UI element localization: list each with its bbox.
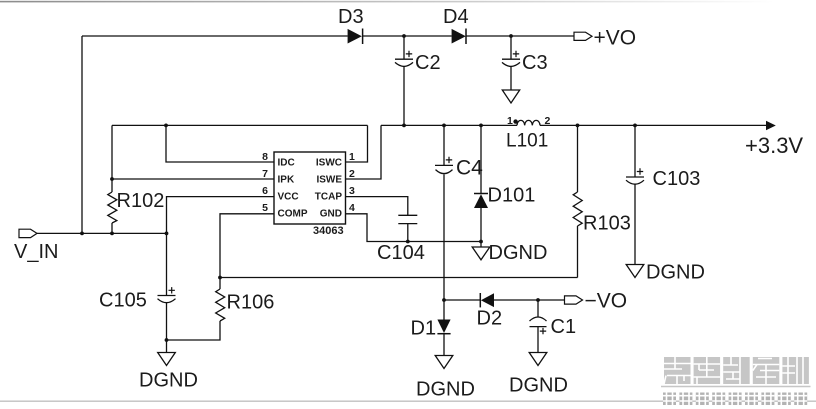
svg-text:+VO: +VO bbox=[594, 27, 637, 50]
capacitor C3 bbox=[502, 51, 520, 67]
connector tag -VO bbox=[565, 296, 583, 304]
page bottom border line bbox=[0, 400, 816, 402]
wire C105 bottom to DGND bbox=[166, 303, 168, 353]
connector tag +VO bbox=[574, 32, 592, 40]
svg-text:C3: C3 bbox=[522, 52, 548, 74]
node COMP feedback junction bbox=[218, 276, 222, 280]
wire R103 top lead from +3.3V rail bbox=[577, 125, 579, 192]
wire VCC node down to C105 bbox=[166, 233, 168, 295]
node IDC drop junction bbox=[164, 124, 168, 128]
node C2 top junction bbox=[402, 34, 406, 38]
svg-text:3: 3 bbox=[349, 185, 355, 197]
wire top rail from V_IN branch to D3 anode bbox=[82, 35, 348, 37]
svg-text:L101: L101 bbox=[506, 131, 548, 152]
svg-text:C4: C4 bbox=[456, 157, 483, 180]
wire pin 7 IPK bbox=[112, 178, 274, 180]
svg-text:DGND: DGND bbox=[646, 262, 705, 284]
svg-text:34063: 34063 bbox=[313, 225, 344, 237]
svg-text:VCC: VCC bbox=[278, 192, 299, 203]
svg-text:2: 2 bbox=[349, 168, 355, 180]
resistor R106 bbox=[216, 289, 225, 321]
wire pin 1 ISWC riser bbox=[346, 125, 368, 162]
ground DGND of C103 bbox=[626, 265, 644, 278]
node R103 top junction bbox=[576, 124, 580, 128]
ground DGND of D101 bbox=[472, 247, 490, 260]
svg-text:−VO: −VO bbox=[585, 290, 628, 313]
node C3 top junction bbox=[509, 34, 513, 38]
diode D3 bbox=[348, 29, 363, 45]
diode D101 bbox=[474, 194, 488, 209]
wire C103 top lead bbox=[634, 125, 636, 177]
wire node ISWC horizontal run bbox=[112, 124, 368, 126]
wire negative rectifier node to D2 bbox=[444, 299, 480, 301]
svg-text:2: 2 bbox=[545, 115, 551, 127]
node C4 top junction bbox=[442, 124, 446, 128]
connector tag V_IN bbox=[19, 229, 37, 237]
wire R106 bottom lead and run to C105 node bbox=[167, 321, 221, 340]
svg-text:8: 8 bbox=[262, 151, 268, 163]
svg-text:COMP: COMP bbox=[278, 209, 308, 220]
svg-text:C1: C1 bbox=[551, 316, 577, 338]
svg-text:DGND: DGND bbox=[416, 379, 475, 401]
diode D1 bbox=[437, 320, 450, 334]
node C105 R106 junction bbox=[165, 338, 169, 342]
svg-text:D2: D2 bbox=[477, 308, 503, 330]
watermark underline bbox=[661, 386, 811, 388]
wire feedback COMP node to R103 bottom bbox=[220, 277, 578, 279]
svg-text:ISWC: ISWC bbox=[316, 158, 342, 169]
svg-text:C105: C105 bbox=[99, 290, 147, 312]
wire R106 top lead bbox=[219, 278, 221, 290]
svg-text:IPK: IPK bbox=[278, 175, 295, 186]
wire L101 pin2 to +3.3V arrow bbox=[540, 124, 766, 126]
watermark small text bbox=[663, 393, 807, 406]
wire D2 anode to -VO tag bbox=[494, 299, 565, 301]
wire vertical V_IN to top rail bbox=[81, 36, 83, 233]
watermark logo big text bbox=[664, 357, 809, 384]
wire pin 8 IDC drop bbox=[166, 125, 274, 162]
svg-text:4: 4 bbox=[349, 202, 355, 214]
svg-text:D1: D1 bbox=[411, 318, 437, 340]
wire C3 bottom lead to ground bbox=[510, 67, 512, 91]
svg-text:C2: C2 bbox=[415, 52, 441, 74]
node R102 bottom junction bbox=[110, 232, 114, 236]
svg-text:C103: C103 bbox=[653, 168, 701, 190]
wire C4 bottom through to D1 bbox=[443, 174, 445, 319]
capacitor C104 bbox=[398, 215, 417, 223]
svg-text:GND: GND bbox=[320, 209, 342, 220]
wire C1 top lead bbox=[537, 300, 539, 317]
svg-text:D4: D4 bbox=[443, 6, 469, 28]
wire V_IN tag to VCC branch bbox=[37, 232, 167, 234]
node D101 bottom junction bbox=[479, 240, 483, 244]
svg-text:D3: D3 bbox=[338, 6, 364, 28]
svg-text:6: 6 bbox=[262, 185, 268, 197]
wire D101 top lead bbox=[480, 125, 482, 193]
ground under C3 bbox=[502, 90, 519, 103]
capacitor C1 bbox=[530, 317, 547, 334]
wire pin 4 GND run bbox=[346, 214, 481, 242]
resistor R103 bbox=[573, 192, 582, 226]
svg-text:+3.3V: +3.3V bbox=[745, 133, 803, 158]
wire pin 5 COMP bbox=[220, 214, 274, 278]
wire R102 bottom lead bbox=[111, 223, 113, 233]
node D101 top junction bbox=[479, 124, 483, 128]
arrow +3.3V rail end bbox=[766, 121, 776, 130]
wire C2 bottom lead bbox=[403, 67, 405, 126]
node D1 D2 junction bbox=[442, 298, 446, 302]
svg-text:R103: R103 bbox=[583, 213, 631, 235]
svg-text:R102: R102 bbox=[117, 190, 165, 212]
svg-text:C104: C104 bbox=[377, 242, 425, 264]
wire C3 top lead bbox=[510, 36, 512, 59]
node C103 top junction bbox=[633, 124, 637, 128]
wire D3 cathode to D4 anode bbox=[363, 35, 452, 37]
capacitor C4 bbox=[435, 157, 453, 174]
inductor L101 bbox=[507, 115, 551, 127]
svg-text:1: 1 bbox=[349, 151, 355, 163]
wire C103 bottom lead to DGND bbox=[634, 184, 636, 264]
svg-text:DGND: DGND bbox=[489, 242, 548, 264]
page top border line bbox=[0, 1, 816, 3]
wire pin 2 ISWE riser bbox=[346, 125, 382, 179]
wire D4 cathode to +VO tag bbox=[466, 35, 574, 37]
wire D101 anode to GND run bbox=[480, 208, 482, 247]
svg-text:R106: R106 bbox=[227, 292, 275, 314]
svg-text:1: 1 bbox=[507, 115, 513, 127]
ground DGND of C1 bbox=[529, 353, 547, 366]
svg-text:D101: D101 bbox=[488, 185, 536, 207]
svg-text:V_IN: V_IN bbox=[14, 241, 58, 263]
ground DGND of C105 bbox=[158, 353, 176, 366]
wire C104 bottom lead bbox=[407, 224, 409, 242]
wire pin 3 TCAP to C104 bbox=[346, 197, 408, 216]
wire R102 top vertical bbox=[111, 125, 113, 192]
diode D4 bbox=[452, 29, 466, 45]
node VCC branch junction bbox=[165, 232, 169, 236]
node IPK R102 junction bbox=[110, 177, 114, 181]
svg-text:IDC: IDC bbox=[278, 158, 295, 169]
node V_IN branch junction bbox=[80, 232, 84, 236]
wire switch node rail to L101 pin1 bbox=[381, 124, 517, 126]
node C2 bottom junction bbox=[402, 124, 406, 128]
wire C2 top lead bbox=[403, 36, 405, 59]
wire C1 bottom lead to DGND bbox=[537, 327, 539, 353]
svg-text:ISWE: ISWE bbox=[316, 175, 342, 186]
wire R103 bottom lead bbox=[577, 226, 579, 278]
svg-text:TCAP: TCAP bbox=[315, 192, 343, 203]
node C104 bottom junction bbox=[406, 240, 410, 244]
op-amp U1 34063 box bbox=[274, 152, 346, 224]
ground DGND of D1 bbox=[435, 356, 453, 369]
svg-text:DGND: DGND bbox=[509, 375, 568, 397]
wire pin 6 VCC bbox=[167, 197, 275, 234]
capacitor C103 bbox=[626, 168, 644, 184]
svg-text:5: 5 bbox=[262, 202, 268, 214]
resistor R102 bbox=[108, 192, 117, 223]
wire D1 cathode to DGND bbox=[443, 334, 445, 356]
node C1 top junction bbox=[536, 298, 540, 302]
capacitor C2 bbox=[395, 51, 413, 67]
wire C4 top lead bbox=[443, 125, 445, 165]
diode D2 bbox=[480, 293, 494, 307]
svg-text:DGND: DGND bbox=[139, 370, 198, 392]
svg-text:7: 7 bbox=[262, 168, 268, 180]
capacitor C105 bbox=[158, 287, 176, 303]
